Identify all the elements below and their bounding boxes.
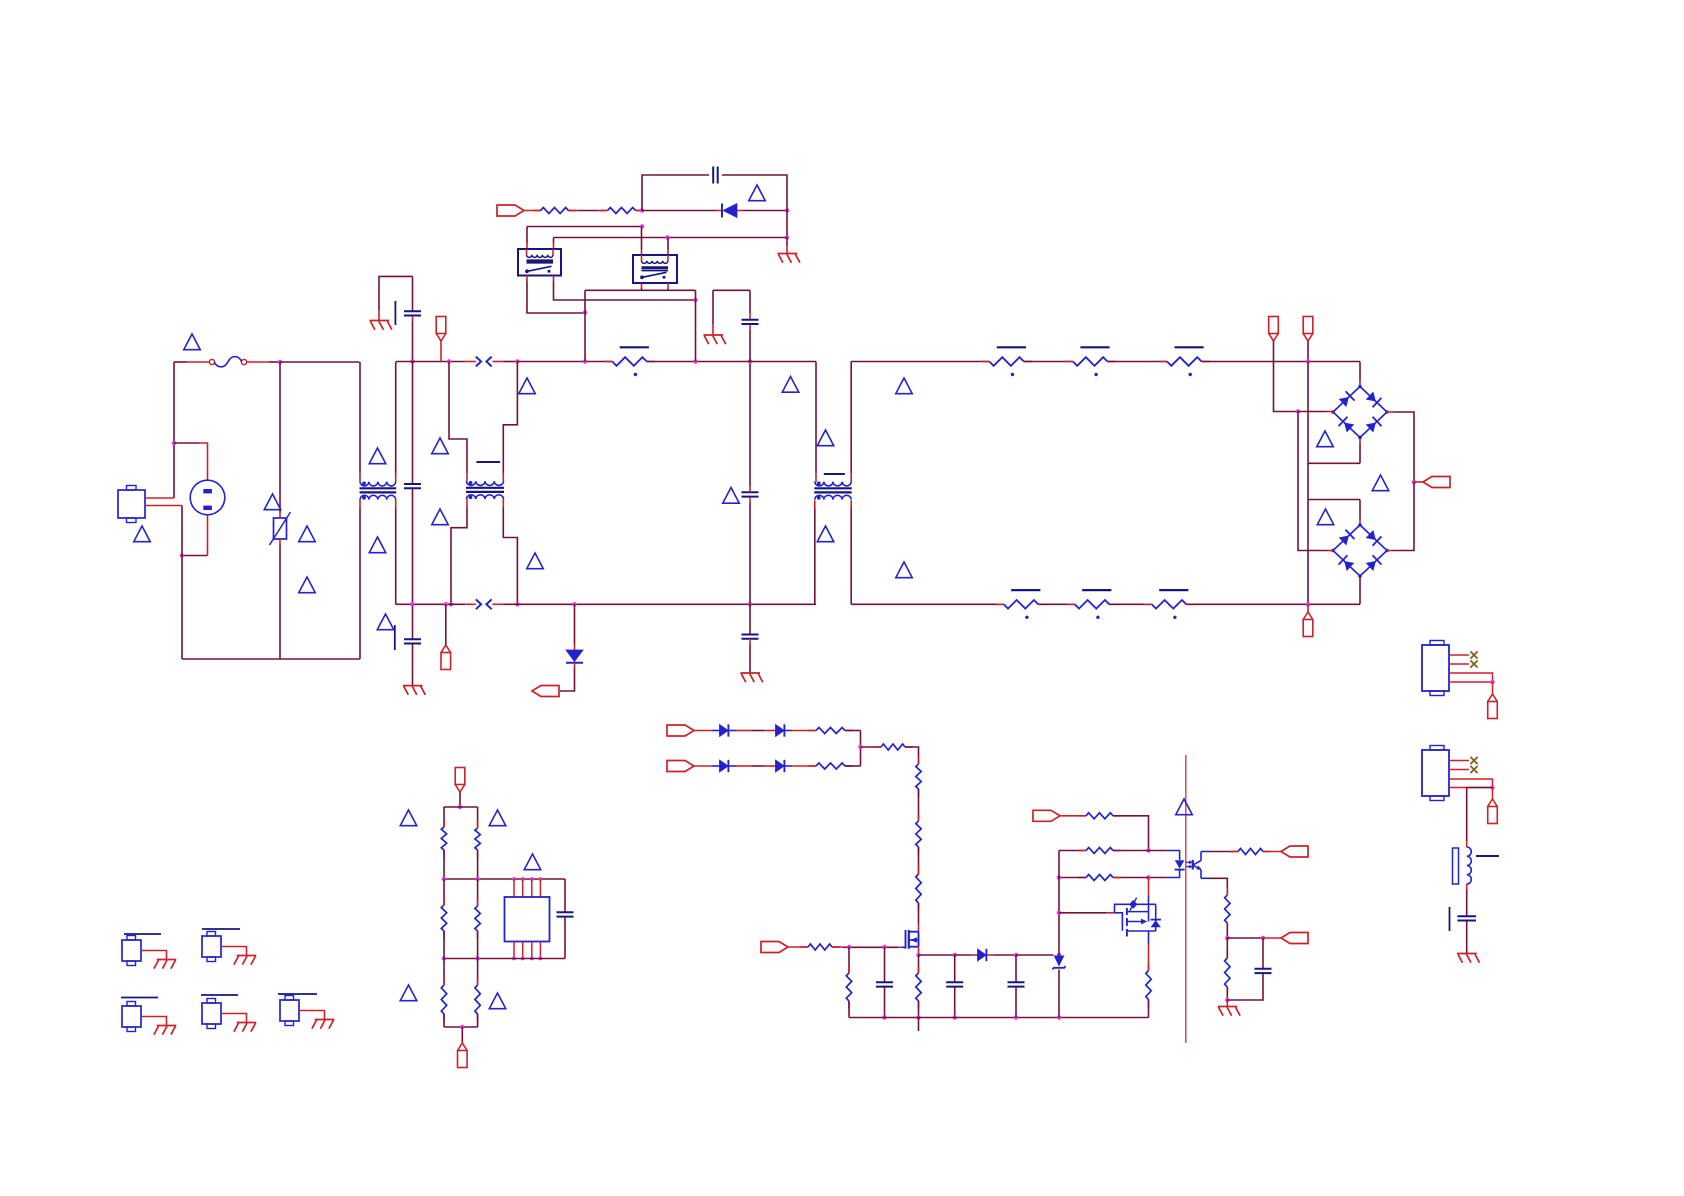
wire - red ic top pin 1 [513,879,515,897]
wire - red Q2 drain stub up [1148,878,1150,896]
wire - stub below rail [918,1018,920,1032]
wire - ic left chain a [443,807,445,827]
node - ic pin top 4 [539,877,543,881]
wire - L2 right bottom leg [850,509,852,605]
wire - red gate b [832,946,843,948]
wire - C6 bottom leg [749,330,751,362]
pin marker DC1 [1269,317,1279,342]
wire - red CN4 lead [221,1014,247,1023]
node - neutral junction [180,553,184,557]
wire - secondary top bus c [1108,361,1168,363]
wire - red fb gate lead [1106,912,1115,914]
wire - top AC bus to MOV node [269,361,280,363]
warning triangle BR1 [1317,431,1334,447]
wire - red BR1 bottom stub [1359,438,1361,444]
no-connect X J5 pin1 [1470,651,1477,658]
wire - rows join [860,731,862,767]
wire - C2 bottom lead [412,489,414,604]
ground - CN4 [234,1023,256,1032]
wire - pin stub bottom [445,604,447,645]
node - C7 on gnd rail [882,1015,886,1019]
pin marker DC2 [1303,317,1313,342]
node - T1 left leg on bus [447,359,451,363]
wire - MOV branch lower [279,545,281,659]
AC inlet J1 [118,486,145,523]
capacitor C8 [946,982,963,986]
wire - secondary top bus d [1202,361,1360,363]
wire - red gap lead L [465,361,476,363]
wire - red pin DC3 stub [1307,604,1309,612]
wire - BR2 top vert [1359,500,1361,520]
ground - output filter [1457,954,1479,963]
node - top bus right corner [515,359,519,363]
capacitor C9 [1008,982,1025,986]
wire - C7 lower [884,987,886,1018]
wire - red div lead [1263,937,1281,939]
wire - red J6 pin2 [1449,769,1469,771]
wire - red stub L2 bl [814,500,816,508]
wire - red BR2 right stub [1387,550,1394,552]
connector arrow gate [761,942,788,953]
wire - emitter chain b [1226,938,1228,958]
wire - C10 upper [1262,938,1264,968]
connector CN2 [202,932,221,962]
wire - red gnd stem right [1226,1000,1228,1006]
wire - earth hook top [379,276,413,310]
ground - CN1 [154,960,176,969]
wire - blue stub DA a [712,730,720,732]
wire - C5b top lead [749,604,751,634]
warning triangle below inlet [134,526,151,542]
node - bus / MOV junction [278,360,282,364]
wire - chain c [918,903,920,924]
wire - red stub L1 bl [359,500,361,508]
wire - source row [919,954,955,956]
wire - red T1 stub tr [502,473,504,481]
wire - red T1 stub bl [466,499,468,507]
wire - ic bottom stem [461,1027,463,1043]
node - K1 br join [693,298,697,302]
wire - top bus to L2 a [517,361,612,363]
resistor R2 [600,208,643,214]
wire - red gap lead R [492,361,503,363]
wire - red C4 stubs [749,486,751,492]
wire - C5b bottom lead [749,645,751,673]
wire - red ic bottom pin 3 [531,942,533,959]
wire - red gnd stem mid [712,324,714,335]
no-connect X J5 pin2 [1470,660,1477,667]
wire - ic bus2 [444,878,565,880]
wire - emitter chain c [1226,987,1228,1000]
wire - red K1 bl stub [526,276,528,282]
wire - between R1 R2 [568,210,578,212]
wire - red K1 tl stub [526,243,528,249]
resistor R4 [916,757,921,797]
wire - source divider b [918,1001,920,1018]
wire - red J5 pin2 [1449,663,1469,665]
wire - red ctrl1 [1060,815,1086,817]
wire - red C5b stub [749,639,751,645]
wire - red DB a [694,765,712,767]
net bar CN3 [121,997,158,999]
wire - red L3 stub [1466,841,1468,847]
connector CN5 [280,996,299,1026]
wire - red gap lead L2 [465,603,476,605]
resistor R19 [441,898,446,939]
warning triangle near fuse [184,334,201,350]
wire - choke L1 right top leg [395,362,397,473]
diode DB1 [720,760,729,772]
wire - DA mid [752,730,764,732]
wire - blue LED bottom [1167,870,1179,878]
pin marker VCC ic [455,768,465,793]
wire - red T1 stub br [502,499,504,507]
wire - Q2 out stub [1148,931,1150,945]
wire - red diode stub [574,644,576,650]
wire - fb bus 238 [554,237,788,239]
resistor R15 [1225,951,1230,995]
resistor R10 [1079,813,1121,819]
wire - bottom AC return [182,658,360,660]
thermistor RT2 [1065,347,1116,376]
wire - chain a [918,789,920,821]
transformer T1 [466,462,504,499]
zener diode Z1 [1053,956,1066,970]
node - ic pin top 3 [530,877,534,881]
wire - choke L1 left bottom leg [359,508,361,659]
pin marker J5 [1488,694,1498,719]
capacitor C4 [742,492,759,496]
wire - chain b [918,847,920,874]
net bar CN1 [124,933,161,935]
wire - AC1 drop [1298,412,1327,551]
wire - ic low right a [477,959,479,986]
connector arrow PWM [532,686,559,697]
diode DA1 [720,724,729,736]
wire - gate pulldown lower [848,1001,850,1018]
wire - red C4 stub b [749,497,751,503]
wire - blue stub DA c [785,730,792,732]
wire - red inlet neutral lead [145,505,182,507]
capacitor C5 [713,167,718,184]
resistor R9 [916,966,921,1009]
neon lamp NE1 [190,480,225,515]
ground - CN5 [312,1020,334,1029]
node - Q1 source node [916,953,920,957]
wire - ic cap drop b [564,917,566,959]
warning triangle ic e [489,993,506,1009]
wire - red collector lead [1263,851,1281,853]
MOSFET Q1 [902,930,919,949]
connector arrow feedback in [497,205,524,216]
resistor R13 [1231,849,1271,855]
wire - top bus choke to gap [396,361,466,363]
wire - red BR2 left stub [1327,550,1334,552]
node - bus2 left [442,877,446,881]
resistor R1 [533,208,576,214]
wire - red J6 pin1 [1449,760,1469,762]
node - C8 on gnd rail [953,1015,957,1019]
wire - red C6 stub a [749,313,751,319]
wire - K2 br leg [667,289,669,291]
connector arrow DC output [1423,477,1450,488]
wire - red DA a [694,730,712,732]
wire - DA end [845,730,861,732]
wire - red output lead [1414,481,1423,483]
warning triangle at L2 top [817,430,834,446]
wire - secondary bottom bus c [1109,603,1151,605]
node - R9 on gnd rail [916,1015,920,1019]
wire - R3 to chain [905,747,919,764]
node - ic bottom node [460,1025,464,1029]
wire - red D3 stub b [987,954,994,956]
wire - Q2 out to rail [1148,1000,1150,1018]
wire - red K1 tr stub [553,243,555,249]
bridge rectifier BR1 [1331,385,1389,440]
connector block J6 [1422,746,1449,801]
wire - BR1 left wire [1298,411,1327,413]
wire - secondary bottom bus a [851,603,1004,605]
wire - red gate a [788,946,808,948]
wire - choke L1 left top leg [359,362,361,473]
thermistor RT5 [1067,590,1118,619]
node - AC2 on top bus [1306,359,1310,363]
pin marker J6 [1488,799,1498,824]
resistor R14 [1225,888,1230,931]
wire - ic right chain a [477,807,479,828]
warning triangle right of MOV [299,526,316,542]
warning triangle above top bus right [782,377,799,393]
node - fb divider node [1057,875,1061,879]
ground - control right [1218,1007,1240,1016]
warning triangle below L2 [817,526,834,542]
wire - red ic top pin 4 [539,879,541,897]
wire - red CN2 lead [221,947,247,956]
wire - pin DC1 drop [1274,341,1299,412]
node - K2 pin on 227 [640,224,644,228]
warning triangle below L1 [369,537,386,553]
wire - red J6 stem [1492,788,1494,800]
resistor R22 [475,978,480,1022]
wire - gnd rail [849,1017,1149,1019]
connector block J5 [1422,641,1449,696]
capacitor C7 [876,982,893,986]
node - zener on gnd rail [1057,1015,1061,1019]
wire - C4 branch lower [749,503,751,604]
wire - ic bottom rail [444,1026,478,1028]
thermistor RT3 [1159,347,1210,376]
resistor R21 [441,978,446,1022]
resistor R17 [441,820,446,858]
node - bus3 right chain [475,956,479,960]
wire - red C6 stub b [749,325,751,331]
warning triangle ic d [400,985,417,1001]
wire - ic bus3 [444,958,565,960]
wire - lamp to neutral leg [182,555,208,557]
wire - opto row lower b [1149,877,1168,879]
wire - ic low left a [443,959,445,986]
wire - BR2 bottom vert [1359,576,1361,604]
wire - red BR1 top stub [1359,381,1361,387]
connector CN4 [202,999,221,1029]
wire - T1 secondary right leg [503,508,517,605]
wire - emitter row [1210,878,1227,895]
wire - AC2 to BR2 top [1308,499,1360,501]
wire - source divider [918,955,920,973]
wire - C12 to gnd [1466,921,1468,953]
spark gap top [476,357,492,367]
warning triangle above L1 [369,448,386,464]
resistor DBR [809,763,853,769]
wire - K1 tr leg [553,238,555,244]
wire - C7 upper [884,947,886,982]
node - ic top node [458,805,462,809]
wire - secondary bottom bus b [1038,603,1074,605]
wire - red lead out of fuse [247,361,270,363]
wire - diode branch upper [574,604,576,644]
triangle with tail marker [377,614,395,650]
wire - L2 left top leg [815,362,817,474]
wire - secondary top bus b [1024,361,1073,363]
wire - gnd cap rail [713,289,750,291]
wire - BR1 bottom vert [1359,443,1361,463]
wire - red lamp bottom lead [207,515,209,556]
warning triangle left of C4 [723,488,740,504]
relay K2 [633,255,677,283]
node - ic pin top 2 [521,877,525,881]
resistor R5 [916,814,921,855]
wire - ic mid left b [443,931,445,959]
wire - K2 tl leg [641,227,643,250]
wire - blue LED top [1167,851,1179,861]
wire - red ic top pin 2 [522,879,524,897]
wire - gnd stem mid [712,290,714,324]
wire - red drain stub [918,924,920,932]
inductor L3 [1453,847,1500,884]
wire - blue stub DA b [729,730,736,732]
wire - C3 bottom lead [412,644,414,685]
wire - K1 br leg [554,281,696,300]
wire - C3 top lead [412,604,414,638]
wire - relay rail right drop [695,290,697,361]
wire - T1 secondary left leg [451,508,467,605]
wire - L2 right top leg [850,362,852,474]
wire - opto row upper b [1113,850,1167,852]
connector arrow fb out [1281,846,1308,857]
wire - red DB b [736,765,752,767]
wire - C1 red mid stub [412,316,414,321]
wire - red into R2 [598,210,607,212]
wire - red stub L2 tl [815,473,817,482]
node - relay net on top bus [583,359,587,363]
node - K2 pin on 238 [665,235,669,239]
wire - opto row upper [1059,850,1086,852]
wire - red stub D2 a [716,210,722,212]
wire - gate pulldown upper [848,947,850,973]
node - pin stub bottom bus [444,602,448,606]
IC U1 [505,897,550,942]
wire - T1 primary left leg [449,362,467,474]
wire - zener lower [1058,970,1060,1018]
resistor DAR [809,728,853,734]
connector arrow DB in [667,761,694,772]
wire - blue stub DB b [729,765,736,767]
wire - fb gate row [1059,912,1106,914]
wire - red J5 pin1 [1449,654,1469,656]
wire - red gate c [898,946,902,948]
pin marker DC3 [1303,612,1313,637]
wire - divider row [1227,937,1263,939]
diode D1 [566,650,583,663]
connector arrow DA in [667,725,694,736]
resistor R11 [1079,848,1121,854]
pin marker GND ic [458,1043,468,1068]
wire - ic pin stem [459,792,461,807]
wire - red K1 br stub [553,276,555,282]
node - C1 on top bus [410,359,414,363]
node - AC2 on bottom bus [1306,602,1310,606]
pin marker above bus [436,317,446,342]
node - C8 top node [953,953,957,957]
wire - between R1 R2 b [578,210,598,212]
bridge rectifier BR2 [1331,523,1389,578]
node - T1 left leg on bottom bus [449,602,453,606]
wire - C4 branch upper [749,362,751,487]
wire - DB end [845,765,861,767]
node - ic pin bottom 2 [521,957,525,961]
capacitor C12 [1450,907,1477,931]
wire - earth line bus to C2 [412,362,414,484]
resistor R7 [801,944,840,950]
no-connect X J6 pin2 [1470,766,1477,773]
wire - red stub L2 br [850,500,852,508]
wire - red DA b [736,730,752,732]
wire - secondary top bus a [851,361,989,363]
node - bus2 right chain [475,877,479,881]
wire - AC2 drop [1307,362,1309,605]
wire - ic low right b [477,1014,479,1027]
node - ic pin bottom 3 [530,957,534,961]
node - opto cathode node [1146,875,1150,879]
wire - red stub D2 b [737,210,743,212]
wire - gnd stem fb [786,238,788,247]
warning triangle mid bridges [1372,475,1389,491]
net bar CN2 [202,928,240,930]
fuse F1 [209,357,246,367]
wire - C9 lower [1015,987,1017,1018]
wire - red out of R2 [636,210,642,212]
polarity bar near C1 [394,301,396,325]
wire - top AC bus to choke L1 [280,361,360,363]
node - C9 on gnd rail [1014,1015,1018,1019]
node - ic pin bottom 4 [539,957,543,961]
wire - red stub L1 br [395,500,397,508]
wire - secondary bottom bus d [1186,603,1360,605]
ground - relay net [703,335,725,344]
wire - C8 lower [954,987,956,1018]
capacitor C6 [742,320,759,324]
wire - ic low left b [443,1014,445,1027]
capacitor C5b below bus [742,635,759,639]
connector arrow ctrl1 [1033,810,1060,821]
wire - red CN3 lead [141,1017,167,1026]
wire - opto row lower [1113,877,1149,879]
wire - cap C5 left leg [642,175,709,211]
wire - C8 upper [954,955,956,982]
wire - opto row lower c [1059,877,1086,879]
node - J5 common [1490,680,1494,684]
wire - ctrl1 to corner [1113,816,1149,851]
